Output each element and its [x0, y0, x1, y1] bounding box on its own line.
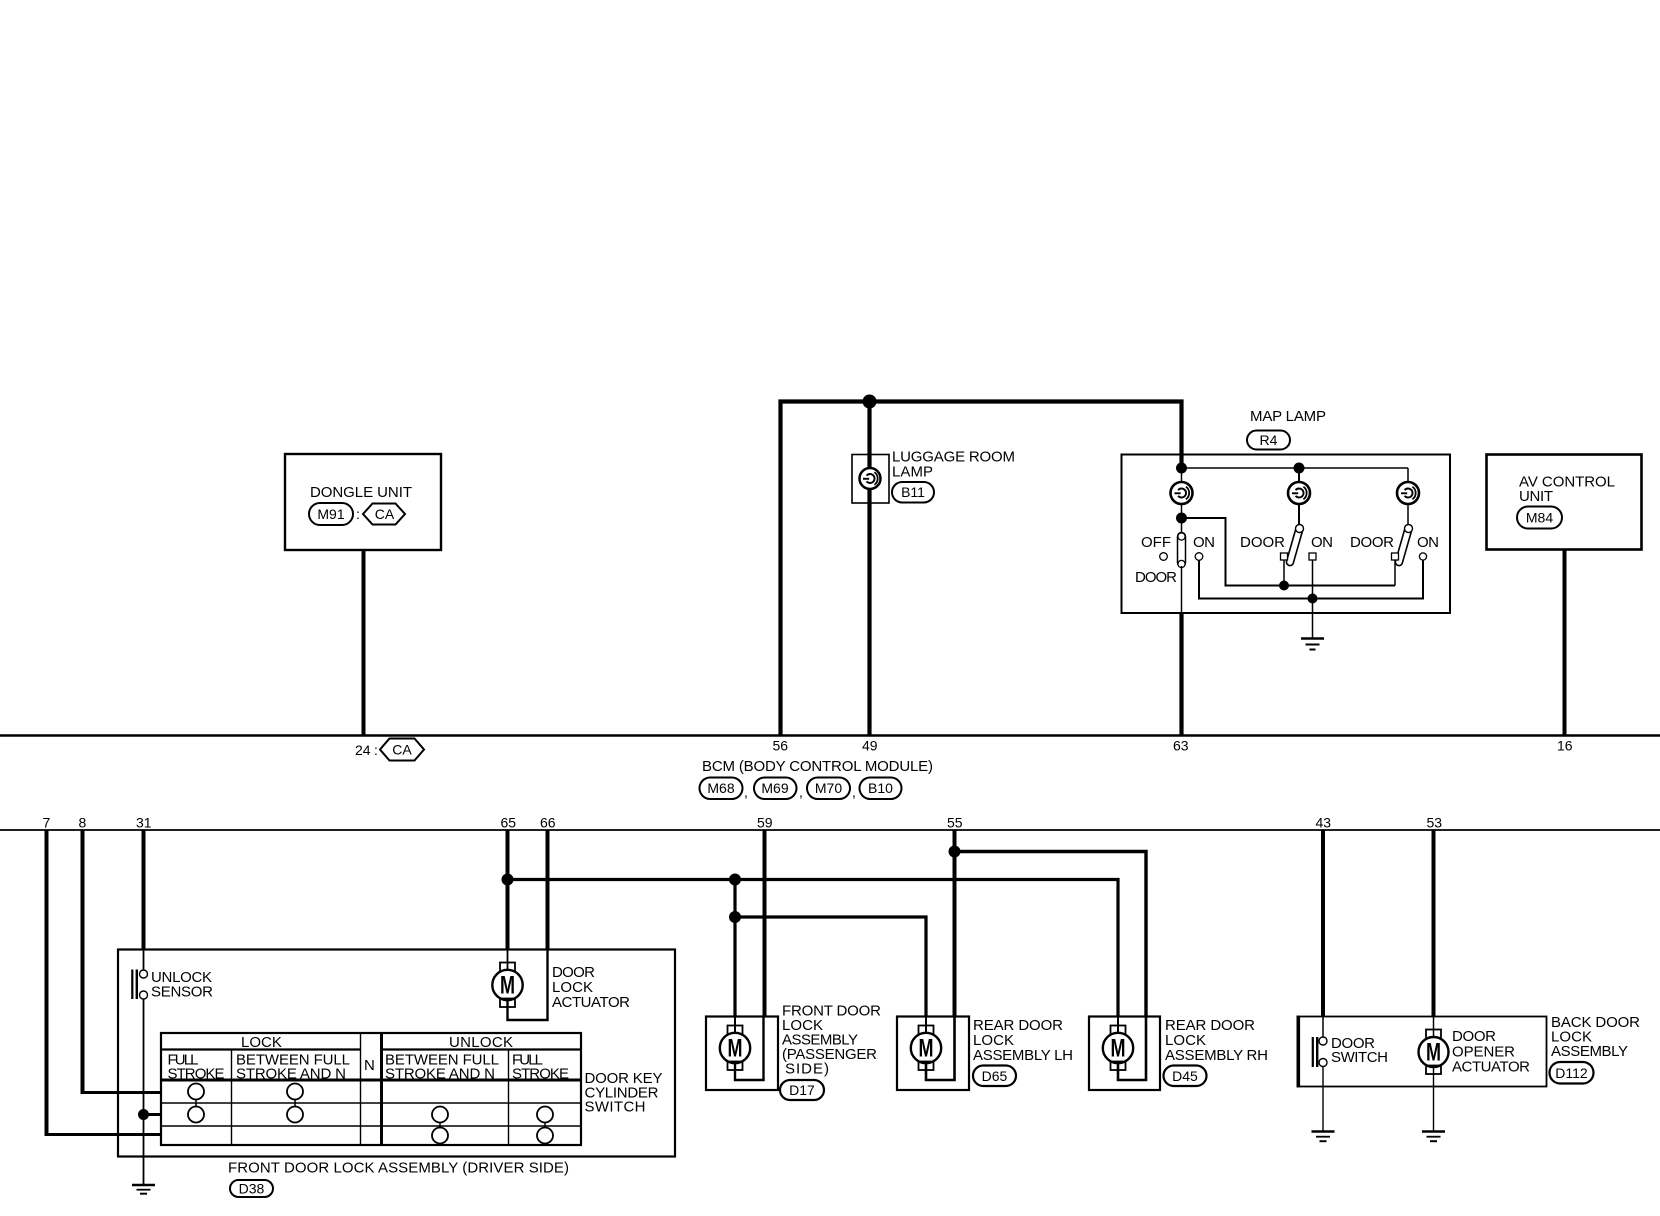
ground symbol door opener: [1422, 1132, 1445, 1142]
wire BCM pin 31 to unlock sensor: [142, 830, 146, 970]
svg-text:16: 16: [1557, 738, 1573, 754]
junction dot front passenger branch: [729, 874, 741, 886]
svg-text:53: 53: [1427, 815, 1443, 831]
junction dot at top feed / luggage lamp branch: [863, 395, 877, 409]
svg-text:31: 31: [136, 815, 152, 831]
front door lock assembly passenger box D17: [706, 1017, 778, 1091]
svg-text:STROKE: STROKE: [512, 1066, 569, 1083]
svg-text:M: M: [500, 972, 515, 1000]
dongle unit box U:M91: [285, 454, 441, 550]
unlock sensor: [131, 970, 147, 1000]
label door lock actuator: [552, 964, 630, 1011]
svg-text:7: 7: [43, 815, 51, 831]
junction dot pin 55 branch: [949, 846, 961, 858]
svg-text:43: 43: [1316, 815, 1332, 831]
wire door switch to ground: [1322, 1067, 1324, 1132]
svg-text:59: 59: [757, 815, 773, 831]
wire BCM pin 8 to key cylinder switch row1: [81, 830, 162, 1093]
svg-text:ASSEMBLY LH: ASSEMBLY LH: [973, 1047, 1073, 1064]
svg-text:N: N: [364, 1057, 375, 1074]
wire BCM pin 53 to door opener actuator: [1432, 830, 1436, 1017]
svg-text:ACTUATOR: ACTUATOR: [1452, 1059, 1530, 1076]
wire lamp2 chain: [1298, 468, 1300, 527]
wire sw2 DOOR contact drop: [1283, 560, 1285, 586]
connector oval R4: [1247, 431, 1290, 450]
svg-text:M: M: [1111, 1035, 1126, 1063]
wire BCM pin 65 to door lock actuator: [506, 830, 510, 950]
wire ON contacts to ground line: [1199, 560, 1423, 599]
wire BCM pin 55 to rear LH lock assembly: [953, 830, 957, 1017]
AV control unit box M84: [1487, 455, 1642, 550]
label unlock sensor: [151, 969, 213, 1001]
connector oval M69: [754, 778, 803, 801]
rear door lock assembly RH box D45: [1089, 1017, 1160, 1091]
svg-text:LAMP: LAMP: [892, 464, 933, 481]
label rear door lock assembly RH: [1165, 1017, 1268, 1064]
svg-text:M91: M91: [317, 506, 344, 522]
svg-text:MAP LAMP: MAP LAMP: [1250, 408, 1326, 425]
label rear door lock assembly LH: [973, 1017, 1073, 1064]
svg-text:M68: M68: [707, 780, 734, 796]
key switch contacts row2: [188, 1107, 553, 1123]
svg-text:B10: B10: [868, 780, 893, 796]
wire rear RH motor return to pin 55 branch: [1118, 1017, 1146, 1081]
front door lock assembly driver side box D38: [118, 950, 675, 1157]
motor front passenger door lock: [720, 1026, 750, 1071]
connector oval D17: [780, 1080, 824, 1100]
connector oval D65: [973, 1066, 1016, 1087]
svg-text:UNIT: UNIT: [1519, 488, 1553, 505]
svg-text:D65: D65: [982, 1068, 1008, 1084]
junction dot ground line: [1308, 594, 1318, 604]
switch SW3 lever: [1395, 524, 1413, 566]
door switch: [1312, 1037, 1327, 1067]
svg-text:STROKE: STROKE: [168, 1066, 225, 1083]
wire luggage room lamp to BCM pin 49: [867, 402, 871, 736]
svg-text:,: ,: [744, 784, 748, 800]
svg-text:R4: R4: [1260, 432, 1278, 448]
connector oval B11: [892, 482, 934, 503]
svg-text:56: 56: [773, 738, 789, 754]
wire pin 43 into box: [1322, 1017, 1324, 1038]
wire common to table row2: [144, 1113, 162, 1116]
table header labels: [168, 1034, 570, 1083]
motor rear LH door lock: [911, 1026, 941, 1071]
label door key cylinder switch: [585, 1070, 663, 1116]
svg-text:M: M: [728, 1035, 743, 1063]
pin label 24 with connector CA: [355, 739, 424, 761]
junction dot rear LH branch: [729, 911, 741, 923]
wire driver motor return to pin 66: [508, 950, 548, 1021]
motor rear RH door lock: [1103, 1026, 1133, 1071]
junction dot lock feed: [502, 874, 514, 886]
connector oval M68: [700, 778, 748, 801]
svg-text:UNLOCK: UNLOCK: [449, 1034, 513, 1051]
wire unlock sensor to ground / switch common: [143, 999, 145, 1185]
wire front passenger motor return to pin 59: [735, 1017, 764, 1081]
svg-text:8: 8: [79, 815, 87, 831]
svg-text:24: 24: [355, 742, 371, 758]
svg-text:DOOR: DOOR: [1452, 1028, 1496, 1045]
connector oval B10: [860, 778, 902, 800]
key switch contact links: [196, 1092, 545, 1136]
wire AV control unit to BCM pin 16: [1563, 550, 1567, 735]
svg-text:DONGLE UNIT: DONGLE UNIT: [310, 484, 412, 501]
svg-text:CA: CA: [392, 742, 412, 758]
svg-text:49: 49: [862, 738, 878, 754]
connector oval D45: [1164, 1066, 1207, 1087]
wire lamp3 chain: [1407, 468, 1409, 527]
contact ON sw3: [1419, 553, 1426, 560]
ground symbol map lamp: [1301, 639, 1324, 650]
svg-text:SENSOR: SENSOR: [151, 984, 213, 1001]
back door lock assembly box D112: [1298, 1016, 1547, 1088]
contact DOOR sw2: [1281, 553, 1288, 560]
door key cylinder switch table: [161, 1033, 581, 1145]
svg-text:OFF: OFF: [1141, 534, 1171, 551]
ground stem map lamp: [1312, 599, 1314, 639]
junction dot DOOR line: [1279, 581, 1289, 591]
svg-text:M: M: [1426, 1039, 1441, 1067]
svg-text:ON: ON: [1417, 534, 1439, 551]
motor door opener actuator: [1419, 1030, 1449, 1075]
svg-text:,: ,: [799, 784, 803, 800]
map lamp internal distribution line: [1182, 467, 1409, 469]
wire BCM pin 66: [546, 830, 550, 950]
motor door lock actuator driver: [492, 963, 522, 1008]
connector oval M84: [1517, 507, 1562, 529]
svg-text:FRONT DOOR LOCK ASSEMBLY (DRI: FRONT DOOR LOCK ASSEMBLY (DRIVER SIDE): [228, 1160, 569, 1177]
svg-text:D38: D38: [239, 1181, 265, 1197]
junction dot lamp1 output: [1176, 513, 1187, 524]
rear door lock assembly LH box D65: [897, 1017, 969, 1091]
svg-text:SIDE): SIDE): [785, 1061, 829, 1078]
ground symbol door switch: [1312, 1132, 1335, 1142]
contact DOOR sw3: [1392, 553, 1399, 560]
connector oval M91: [309, 503, 360, 525]
wire dongle unit to BCM pin 24: [362, 550, 366, 735]
svg-text:66: 66: [540, 815, 556, 831]
svg-text:63: 63: [1173, 738, 1189, 754]
label front door lock assembly passenger side: [782, 1003, 881, 1078]
wire BCM pin 43 to back door switch: [1321, 830, 1325, 1017]
contact OFF: [1160, 553, 1168, 561]
svg-text:SWITCH: SWITCH: [1331, 1049, 1388, 1066]
svg-text:ON: ON: [1193, 534, 1215, 551]
svg-text:ASSEMBLY: ASSEMBLY: [1551, 1043, 1628, 1060]
label door switch: [1331, 1035, 1388, 1066]
svg-text::: :: [356, 506, 360, 522]
svg-text:ACTUATOR: ACTUATOR: [552, 994, 630, 1011]
svg-text:M70: M70: [815, 780, 842, 796]
junction dot switch common: [138, 1109, 149, 1120]
map lamp bulb 2: [1288, 482, 1310, 504]
switch SW1 OFF/ON/DOOR slider: [1178, 533, 1186, 568]
svg-text:M69: M69: [761, 780, 788, 796]
wire lamp1 chain: [1181, 468, 1183, 535]
svg-text:STROKE AND N: STROKE AND N: [385, 1066, 495, 1083]
junction dot lamp2 branch: [1294, 463, 1305, 474]
svg-text::: :: [374, 742, 378, 758]
wire BCM pin 59 to front passenger lock assembly: [763, 830, 767, 1017]
svg-text:SWITCH: SWITCH: [585, 1099, 646, 1116]
key switch contacts row1 lock: [188, 1084, 303, 1100]
wire rear LH motor return to pin 55: [926, 1017, 955, 1081]
wire pin 53 into box: [1433, 1017, 1435, 1039]
wire BCM pin 7 to key cylinder switch row3: [45, 830, 162, 1135]
map lamp bulb 3: [1397, 482, 1419, 504]
svg-text:,: ,: [852, 784, 856, 800]
svg-text:M: M: [919, 1035, 934, 1063]
wire lock feed to rear RH motor: [508, 880, 1119, 1017]
wire sw2 ON contact drop: [1312, 560, 1314, 599]
wire branch to front passenger motor: [733, 917, 736, 1017]
connector oval D38: [230, 1180, 273, 1197]
connector oval M70: [807, 778, 856, 801]
BCM bus line bottom: [0, 829, 1660, 831]
ground symbol driver door: [132, 1185, 155, 1194]
junction dot feed: [1176, 463, 1187, 474]
label back door lock assembly: [1551, 1014, 1640, 1060]
connector hexagon CA: [363, 504, 405, 525]
switch SW2 lever: [1286, 524, 1304, 566]
svg-text:DOOR: DOOR: [1240, 534, 1285, 551]
svg-text:M84: M84: [1526, 510, 1553, 526]
BCM bus line top: [0, 734, 1660, 736]
wire map lamp box to BCM pin 63: [1179, 613, 1183, 735]
svg-text:D112: D112: [1555, 1065, 1588, 1081]
svg-text:ON: ON: [1311, 534, 1333, 551]
svg-text:65: 65: [501, 815, 517, 831]
wire pin 55 branch to rear RH assembly: [955, 852, 1147, 1017]
contact ON sw2 (square): [1309, 553, 1316, 560]
luggage room lamp B11: [852, 455, 889, 504]
contact ON sw1: [1195, 553, 1203, 561]
map lamp box R4: [1122, 455, 1451, 614]
key switch contacts row3 unlock: [432, 1128, 553, 1144]
wire door opener actuator to ground: [1433, 1066, 1435, 1132]
svg-text:B11: B11: [901, 484, 925, 500]
map lamp bulb 1: [1171, 482, 1193, 504]
label door opener actuator: [1452, 1028, 1530, 1076]
svg-text:DOOR: DOOR: [1135, 569, 1177, 586]
wire sw3 DOOR contact drop: [1394, 560, 1396, 586]
wire battery feed: pin 56 up, across top, down to map lamp box: [781, 402, 1182, 736]
svg-text:ASSEMBLY RH: ASSEMBLY RH: [1165, 1047, 1268, 1064]
svg-text:55: 55: [947, 815, 963, 831]
label luggage room lamp: [892, 449, 1015, 481]
svg-text:BCM (BODY CONTROL MODULE): BCM (BODY CONTROL MODULE): [702, 758, 933, 775]
wire sw1 to box bottom: [1181, 566, 1183, 613]
svg-text:LOCK: LOCK: [241, 1034, 282, 1051]
svg-text:D17: D17: [789, 1082, 815, 1098]
svg-text:STROKE AND N: STROKE AND N: [236, 1066, 346, 1083]
connector oval D112: [1550, 1062, 1594, 1084]
wire lamp1 output to DOOR contacts line: [1182, 518, 1396, 586]
svg-text:CA: CA: [375, 506, 395, 522]
wire branch to rear LH motor: [735, 880, 926, 1017]
svg-text:D45: D45: [1172, 1068, 1198, 1084]
svg-text:DOOR: DOOR: [1350, 534, 1394, 551]
